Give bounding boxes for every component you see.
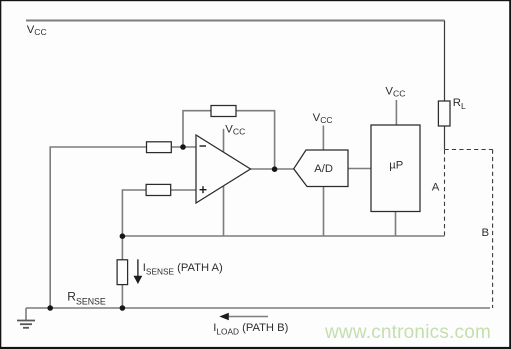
svg-text:µP: µP [389, 159, 403, 171]
svg-text:A/D: A/D [314, 163, 333, 175]
svg-text:B: B [482, 227, 490, 239]
svg-text:A: A [432, 182, 440, 194]
svg-text:www.cntronics.com: www.cntronics.com [324, 322, 491, 343]
